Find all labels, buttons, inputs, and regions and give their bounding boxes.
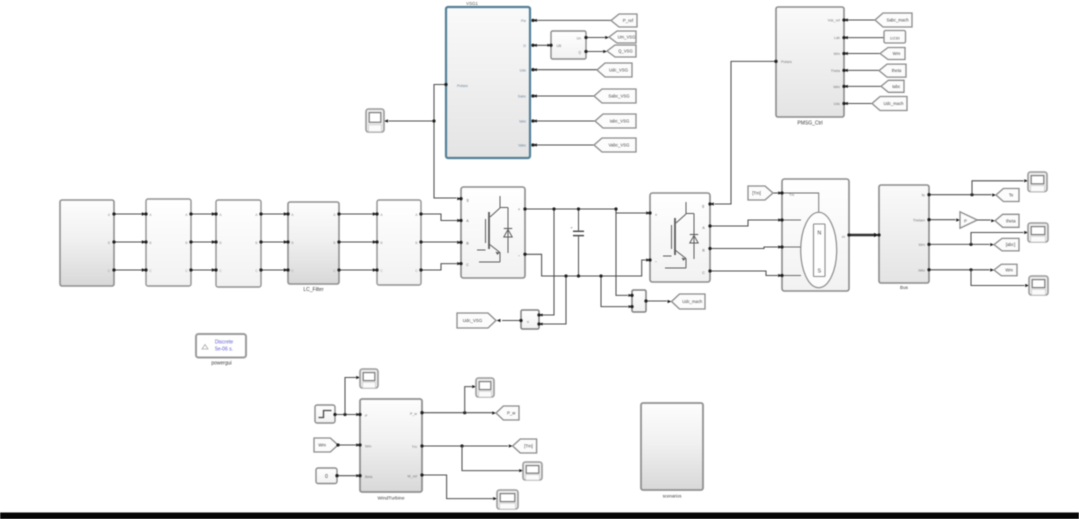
svg-text:Wm: Wm: [893, 51, 901, 56]
svg-text:Wm: Wm: [365, 445, 371, 449]
svg-text:g: g: [466, 198, 468, 202]
svg-text:theta: theta: [892, 68, 902, 73]
svg-text:S: S: [817, 269, 821, 275]
svg-text:C: C: [466, 263, 469, 267]
svg-text:Sabc_VSG: Sabc_VSG: [608, 94, 630, 99]
svg-text:LC_Filter: LC_Filter: [303, 287, 324, 293]
svg-text:Iabc: Iabc: [833, 85, 840, 89]
svg-text:W_ref: W_ref: [407, 475, 417, 479]
svg-text:Udc_VSG: Udc_VSG: [463, 318, 483, 323]
svg-text:Iabc: Iabc: [892, 84, 901, 89]
svg-text:B: B: [466, 242, 469, 246]
svg-text:N: N: [817, 231, 821, 237]
svg-text:Lab: Lab: [834, 36, 840, 40]
svg-text:A: A: [702, 226, 705, 230]
svg-text:m: m: [842, 235, 845, 239]
svg-text:C: C: [255, 269, 258, 273]
svg-text:Bus: Bus: [900, 285, 909, 290]
svg-text:P: P: [964, 218, 967, 223]
svg-text:[Tm]: [Tm]: [752, 191, 761, 196]
svg-text:P_w: P_w: [410, 412, 417, 416]
svg-text:C: C: [333, 269, 336, 273]
svg-text:Pulses: Pulses: [781, 60, 792, 64]
svg-text:P_w: P_w: [507, 411, 516, 416]
svg-text:C: C: [149, 269, 152, 273]
svg-text:Udc: Udc: [834, 102, 841, 106]
svg-text:Wm: Wm: [1005, 268, 1013, 273]
svg-text:UB: UB: [557, 44, 562, 48]
svg-text:C: C: [415, 269, 418, 273]
svg-text:P_ref: P_ref: [623, 18, 634, 23]
svg-text:VSG1: VSG1: [466, 1, 478, 6]
svg-text:Wm: Wm: [834, 52, 840, 56]
svg-text:B: B: [702, 249, 705, 253]
svg-text:Te: Te: [921, 193, 925, 197]
svg-text:[Tm]: [Tm]: [524, 444, 533, 449]
svg-text:WindTurbine: WindTurbine: [377, 496, 404, 502]
svg-text:C: C: [702, 271, 705, 275]
svg-text:+: +: [655, 213, 658, 218]
svg-text:Wm: Wm: [919, 243, 925, 247]
svg-text:Beta: Beta: [365, 475, 372, 479]
svg-text:A: A: [466, 219, 469, 223]
svg-text:Wm: Wm: [318, 443, 326, 448]
svg-text:Iabc_VSG: Iabc_VSG: [610, 119, 630, 124]
svg-text:Te: Te: [1009, 193, 1014, 198]
svg-text:Vabc: Vabc: [518, 144, 526, 148]
svg-text:Udc_mach: Udc_mach: [883, 101, 904, 106]
svg-text:theta: theta: [1006, 218, 1016, 223]
svg-text:+: +: [518, 207, 521, 212]
svg-text:Q_VSG: Q_VSG: [618, 49, 632, 54]
svg-text:Sabc_mach: Sabc_mach: [886, 18, 909, 23]
svg-text:g: g: [702, 204, 704, 208]
svg-text:Pulses: Pulses: [457, 84, 468, 88]
svg-text:Theta: Theta: [831, 69, 840, 73]
svg-text:v: v: [527, 320, 529, 324]
svg-text:Q: Q: [578, 51, 581, 55]
svg-text:C: C: [108, 269, 111, 273]
svg-text:Un: Un: [577, 37, 581, 41]
svg-text:D: D: [523, 44, 526, 48]
svg-text:Um_VSG: Um_VSG: [618, 35, 636, 40]
svg-text:powergui: powergui: [211, 361, 231, 367]
svg-text:Iabc: Iabc: [519, 120, 526, 124]
svg-text:Vabc_VSG: Vabc_VSG: [609, 143, 631, 148]
svg-text:1/230: 1/230: [890, 35, 901, 40]
svg-text:Iabc: Iabc: [918, 268, 925, 272]
svg-text:Udc_mach: Udc_mach: [682, 299, 703, 304]
svg-text:[abc]: [abc]: [1006, 242, 1015, 247]
svg-text:Discrete: Discrete: [215, 340, 234, 346]
svg-text:Sabc: Sabc: [518, 95, 526, 99]
svg-text:scenarios: scenarios: [663, 494, 683, 499]
svg-text:PMSG_Ctrl: PMSG_Ctrl: [797, 121, 822, 127]
svg-text:C: C: [291, 269, 294, 273]
svg-text:C: C: [185, 269, 188, 273]
svg-text:5e-06 s.: 5e-06 s.: [215, 347, 233, 353]
svg-text:Udc_VSG: Udc_VSG: [609, 68, 629, 73]
svg-text:Thetam: Thetam: [913, 218, 925, 222]
svg-text:Vdc_ref: Vdc_ref: [828, 19, 840, 23]
svg-text:C: C: [219, 269, 222, 273]
svg-text:Udc: Udc: [520, 68, 527, 72]
svg-text:Tm: Tm: [789, 193, 794, 197]
svg-text:Pw: Pw: [521, 19, 526, 23]
svg-text:C: C: [380, 269, 383, 273]
svg-text:0: 0: [325, 474, 328, 480]
svg-text:Tm: Tm: [412, 445, 417, 449]
